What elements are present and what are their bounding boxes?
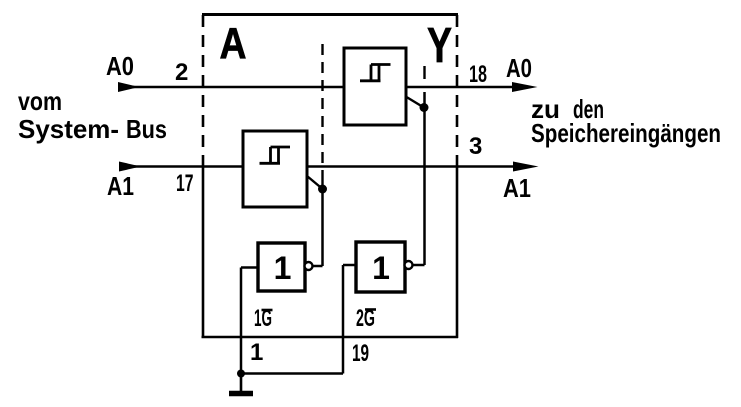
- inverter G1 box: [258, 243, 305, 291]
- svg-text:A1: A1: [107, 171, 134, 201]
- svg-text:A1: A1: [503, 173, 531, 203]
- junction dot U1 enable: [420, 103, 429, 112]
- IC outline bottom edge: [202, 336, 459, 339]
- Schmitt trigger buffer U2 (A1 path): [243, 131, 307, 207]
- inverter G1 output bubble: [305, 262, 313, 270]
- svg-text:Y: Y: [427, 19, 452, 73]
- wire A1 input with arrow: [119, 162, 141, 172]
- dashed enable stub above U1 dot: [423, 66, 425, 79]
- svg-text:A0: A0: [106, 51, 134, 81]
- wire pin 19 (G2 enable input): [342, 265, 345, 374]
- IC outline left edge solid: [202, 166, 205, 338]
- hysteresis symbol U2: [260, 147, 291, 163]
- svg-text:A: A: [220, 19, 247, 68]
- three-state indicator U1 (diagonal): [407, 97, 424, 107]
- svg-text:1: 1: [274, 250, 292, 286]
- hysteresis symbol U1: [360, 65, 391, 81]
- IC outline top edge: [202, 13, 458, 16]
- IC outline left edge dashed (A block boundary): [202, 13, 205, 167]
- wire joining pin1 and pin19: [241, 372, 343, 375]
- dashed enable line (section divider) to U2: [321, 40, 323, 163]
- wire enable U2 down to G1 output: [321, 189, 324, 266]
- wire A0 input with arrow: [118, 82, 139, 92]
- svg-text:System-: System-: [18, 114, 119, 144]
- svg-text:Speichereingängen: Speichereingängen: [531, 118, 721, 148]
- svg-text:1: 1: [372, 250, 390, 286]
- svg-text:vom: vom: [18, 86, 62, 116]
- wire A1 output: [307, 165, 526, 168]
- IC outline right edge dashed (Y block boundary): [456, 13, 459, 167]
- junction dot U2 enable: [318, 185, 327, 194]
- Schmitt trigger buffer U1 (A0 path): [344, 48, 406, 125]
- inverter G2 box: [356, 242, 405, 292]
- svg-text:19: 19: [352, 340, 369, 367]
- junction dot at ground: [237, 370, 245, 378]
- wire A0 output: [406, 86, 525, 89]
- wire G2 input: [343, 264, 356, 267]
- IC outline right edge solid: [456, 166, 459, 338]
- svg-text:18: 18: [469, 61, 487, 88]
- svg-text:3: 3: [469, 133, 482, 160]
- svg-text:1: 1: [250, 339, 263, 366]
- inverter G2 output bubble: [405, 261, 413, 269]
- svg-text:2: 2: [175, 59, 188, 86]
- wire enable U1 down to G2 output: [423, 92, 426, 265]
- wire G1 input: [241, 266, 258, 269]
- svg-text:A0: A0: [506, 53, 532, 83]
- ground symbol: [240, 374, 243, 392]
- three-state indicator U2 (diagonal): [307, 176, 322, 189]
- wire pin 1 (G1 enable input): [240, 268, 243, 374]
- svg-text:17: 17: [176, 170, 194, 197]
- svg-text:Bus: Bus: [126, 114, 167, 144]
